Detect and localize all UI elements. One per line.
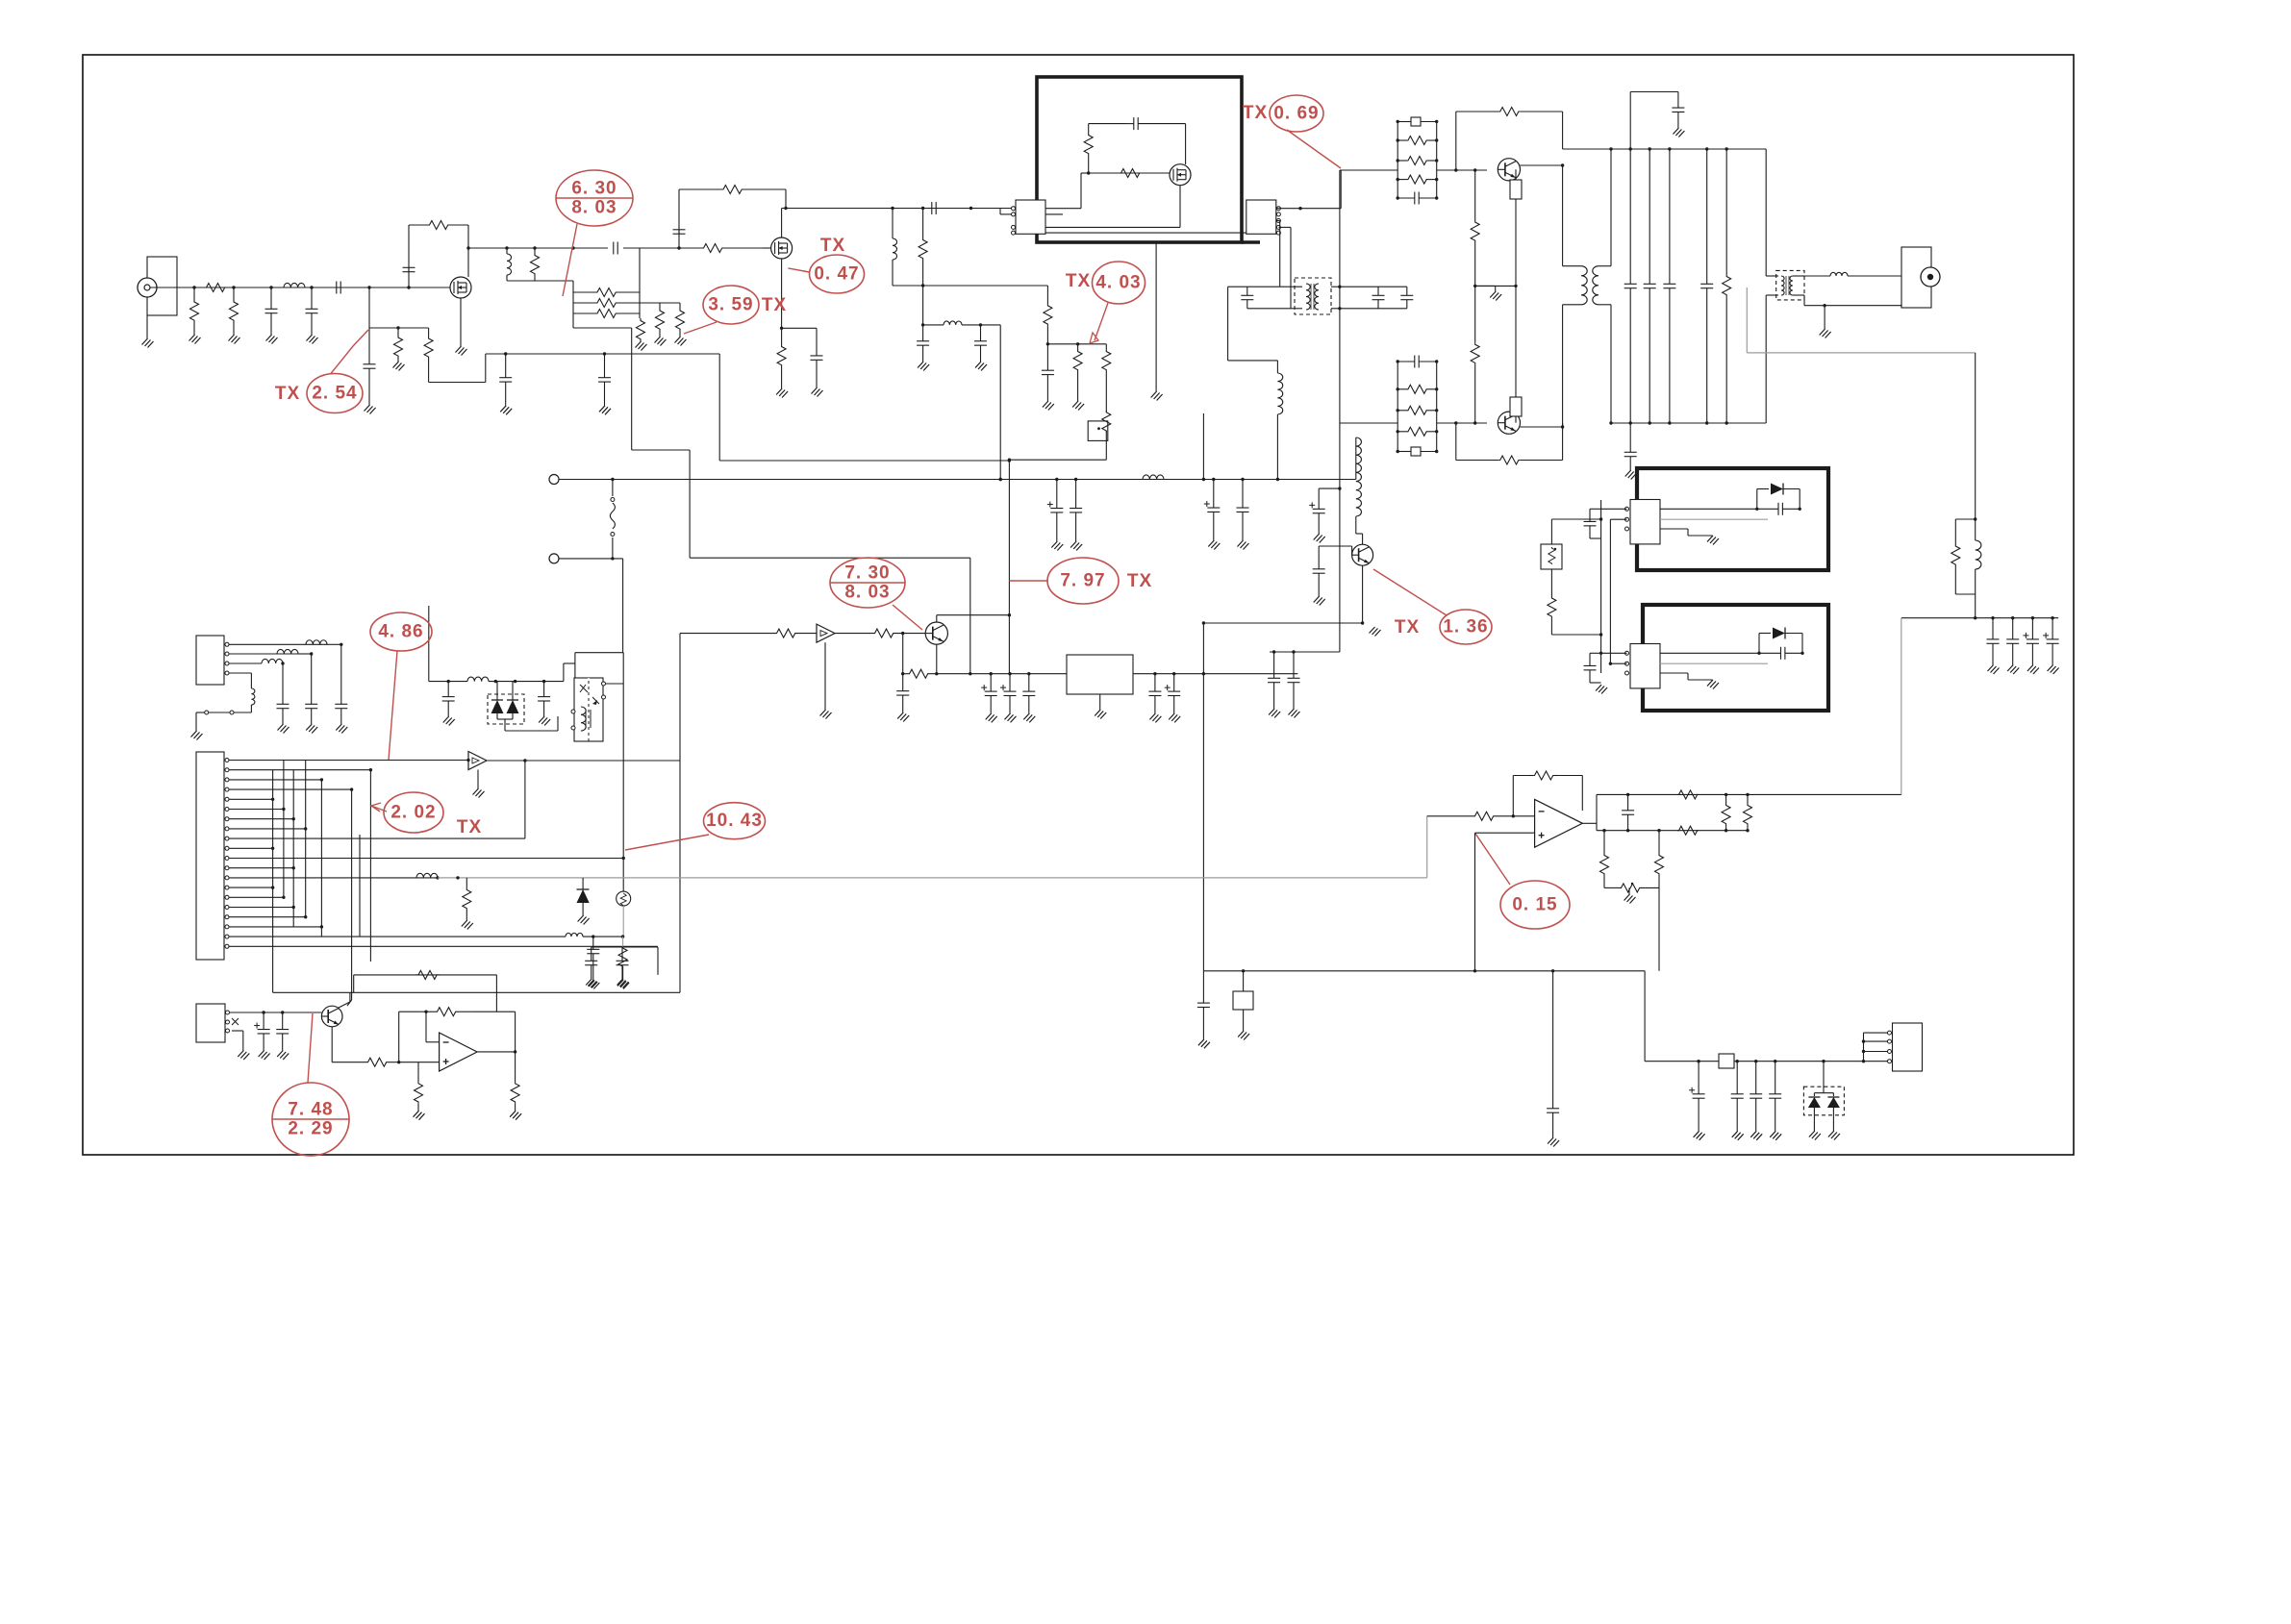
svg-text:4. 86: 4. 86 (378, 622, 423, 642)
svg-text:8. 03: 8. 03 (844, 583, 890, 603)
svg-text:7. 97: 7. 97 (1060, 571, 1105, 591)
svg-text:TX: TX (762, 295, 787, 315)
svg-text:7. 48: 7. 48 (288, 1100, 333, 1120)
svg-text:TX: TX (1395, 617, 1420, 637)
svg-text:TX: TX (1243, 103, 1268, 123)
svg-text:0. 69: 0. 69 (1273, 104, 1319, 124)
svg-text:TX: TX (1066, 271, 1091, 291)
svg-text:1. 36: 1. 36 (1443, 617, 1488, 637)
svg-text:2. 54: 2. 54 (312, 384, 357, 404)
svg-text:8. 03: 8. 03 (571, 198, 617, 218)
svg-text:TX: TX (820, 236, 845, 256)
svg-text:7. 30: 7. 30 (844, 563, 890, 584)
svg-text:4. 03: 4. 03 (1095, 273, 1141, 293)
svg-text:TX: TX (1127, 571, 1152, 591)
svg-text:0. 47: 0. 47 (814, 264, 859, 285)
svg-text:2. 02: 2. 02 (390, 803, 436, 823)
svg-text:TX: TX (275, 384, 300, 404)
svg-text:TX: TX (457, 817, 482, 837)
svg-text:6. 30: 6. 30 (571, 179, 617, 199)
svg-text:10. 43: 10. 43 (706, 811, 763, 831)
svg-text:3. 59: 3. 59 (708, 295, 753, 315)
svg-text:0. 15: 0. 15 (1512, 895, 1557, 915)
svg-text:2. 29: 2. 29 (288, 1119, 333, 1139)
